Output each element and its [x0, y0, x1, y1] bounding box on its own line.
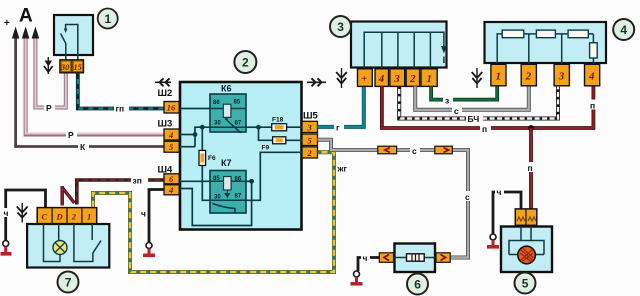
callout circle 1	[98, 9, 118, 29]
svg-text:ч: ч	[4, 208, 9, 218]
block internal wire Ш3/4 into block	[180, 134, 195, 136]
callout circle 6	[407, 274, 428, 295]
wire п from junction down to fan motor connector	[526, 128, 537, 209]
callout circle 7	[58, 272, 79, 293]
svg-text:г: г	[336, 123, 340, 133]
wire ч from fan motor connector to ground	[493, 187, 521, 235]
connector Ш4 pin 4	[164, 185, 179, 195]
svg-text:4: 4	[620, 23, 627, 37]
ignition switch 1	[54, 15, 93, 73]
wire гп from ignition terminal 15 to Ш2 pin 16	[78, 73, 164, 114]
svg-text:4: 4	[168, 185, 173, 195]
block internal wire Ш4/6 to relay K7 coil row	[180, 180, 210, 182]
svg-text:3: 3	[337, 20, 344, 34]
mounting block 2 body	[180, 82, 302, 230]
svg-text:Ш2: Ш2	[158, 88, 173, 99]
ground (body) for heater control	[1, 241, 12, 256]
svg-text:жг: жг	[337, 164, 348, 174]
junction on K6/30 row above F6	[200, 125, 205, 130]
fuse F18	[272, 117, 287, 131]
svg-text:3: 3	[393, 73, 400, 85]
svg-text:К7: К7	[221, 158, 232, 168]
wire с from Ш5 pin 5 to resistor 6 via inline connectors	[318, 140, 474, 258]
block internal wire K6 contact out to fuse junction	[246, 126, 259, 128]
svg-text:1: 1	[105, 12, 112, 26]
heater switch 3 body	[351, 22, 447, 69]
svg-text:2: 2	[525, 70, 532, 82]
wire жг from Ш5 pin 2 around to heater control pin 1	[93, 152, 353, 272]
svg-text:4: 4	[378, 73, 385, 85]
svg-text:зп: зп	[133, 176, 142, 186]
block internal wire fuse F6 down to K7 contact row	[202, 166, 210, 201]
body-ground symbol near heater control 7	[17, 203, 28, 223]
svg-text:п: п	[482, 124, 487, 134]
svg-text:п: п	[528, 163, 533, 173]
continuation arrow (to other circuits) near ignition switch	[44, 57, 53, 74]
connector Ш5 pin 2	[302, 147, 318, 158]
heater switch 3 connector pins + 4 3 2 1	[358, 69, 438, 87]
svg-text:1: 1	[427, 73, 433, 85]
block internal wire junction down through fuse F9 to Ш5/5	[259, 127, 303, 140]
wire р (middle arrow) from node A to Ш3 pin 4	[22, 27, 164, 135]
svg-text:+: +	[361, 73, 367, 85]
wire с from switch pin 2 to resistor pin 2	[415, 86, 529, 115]
svg-text:з: з	[445, 96, 449, 106]
inline connector pair on wire с (right)	[435, 146, 453, 154]
svg-text:30: 30	[214, 195, 221, 201]
svg-text:К6: К6	[221, 84, 232, 94]
svg-text:30: 30	[60, 62, 70, 72]
wire з from switch pin 1 to resistor pin 1	[431, 86, 497, 105]
svg-text:4: 4	[168, 130, 173, 140]
svg-text:2: 2	[409, 73, 416, 85]
wire п from switch pin 4 to resistor pin 4 and fan motor	[382, 86, 599, 133]
svg-text:85: 85	[213, 176, 220, 182]
svg-text:C: C	[42, 212, 48, 222]
svg-text:БЧ: БЧ	[468, 114, 480, 124]
junction on Ш3/4 line	[193, 132, 198, 137]
inline connector pair on wire с (left)	[378, 146, 397, 154]
block internal wire K7 coil row out to junction	[246, 180, 252, 182]
block internal wire K7 contact row to Ш5/2	[246, 152, 302, 200]
block internal wire Ш2/16 to relay K6 coil	[180, 108, 210, 110]
svg-text:30: 30	[214, 121, 221, 127]
block internal wire junction to fuse F18 to Ш5/3	[259, 126, 303, 128]
block internal wire from K6/30 row down to fuse F6	[201, 127, 203, 151]
svg-text:2: 2	[307, 148, 313, 158]
connector Ш3 pin 4	[164, 129, 179, 140]
svg-text:с: с	[454, 106, 459, 116]
wire ч from heater control pin C to ground	[3, 190, 46, 241]
connector Ш3 pin 5	[164, 141, 179, 152]
svg-text:+: +	[4, 18, 10, 29]
connector Ш5 pin 5	[302, 134, 318, 146]
ground (body) for fan motor	[487, 234, 499, 249]
wire ч from resistor 6 to ground	[358, 253, 379, 272]
svg-text:6: 6	[414, 278, 421, 292]
svg-text:2: 2	[71, 212, 77, 222]
continuation arrow » right of mounting block	[307, 78, 326, 86]
resistor element R2	[536, 30, 555, 38]
svg-text:п: п	[590, 100, 595, 110]
fan motor 5 connector	[515, 209, 537, 225]
block internal wire Ш3/5 into block	[180, 146, 195, 148]
relay K7	[210, 158, 246, 213]
svg-text:A: A	[19, 6, 33, 27]
svg-text:ч: ч	[363, 253, 368, 263]
svg-text:85: 85	[234, 100, 241, 106]
svg-text:гп: гп	[116, 104, 125, 114]
svg-text:Ш5: Ш5	[303, 111, 319, 122]
svg-text:Р: Р	[68, 130, 74, 140]
resistor element R1	[502, 30, 524, 38]
fan motor 5 body	[501, 227, 552, 273]
additional resistor 4 body	[485, 22, 607, 64]
svg-text:16: 16	[167, 103, 176, 113]
wire бч from switch pin 3 to resistor pin 3	[399, 86, 558, 124]
svg-text:5: 5	[522, 277, 529, 291]
svg-text:1: 1	[496, 70, 502, 82]
svg-text:D: D	[56, 212, 63, 222]
wire г from Ш5 pin 3 to heater switch +	[318, 86, 364, 132]
fuse F9	[262, 137, 286, 152]
svg-text:86: 86	[235, 177, 242, 183]
svg-text:4: 4	[588, 70, 595, 82]
ground (body) for resistor 6	[351, 271, 363, 286]
resistor element R3	[568, 30, 588, 38]
relay K6	[210, 84, 246, 133]
label К on wire to Ш3/5	[78, 142, 89, 153]
heater control unit 7 connector strip C D 2 1	[37, 208, 96, 224]
svg-text:87: 87	[235, 194, 242, 200]
svg-text:15: 15	[73, 62, 82, 72]
junction right of K7 coil	[249, 179, 254, 184]
svg-text:F9: F9	[262, 145, 270, 152]
fuse F6	[199, 150, 216, 165]
resistor 6 inline connector (right)	[436, 253, 450, 262]
wire зп from Ш4 pin 6 to heater control lighting	[62, 175, 164, 206]
svg-text:ч: ч	[497, 187, 502, 197]
svg-text:3: 3	[558, 70, 565, 82]
svg-text:2: 2	[242, 56, 249, 70]
callout circle 2	[234, 51, 256, 73]
svg-text:F18: F18	[272, 117, 284, 124]
svg-text:ч: ч	[141, 209, 146, 219]
svg-text:87: 87	[235, 121, 242, 127]
connector Ш2 pin 16	[164, 102, 179, 114]
resistor 6 body	[394, 244, 438, 273]
additional resistor 4 connector pins 1 2 3 4	[491, 64, 600, 86]
block internal wire Ш4/4 down-around to K7 coil right (ground return)	[180, 181, 252, 225]
motor armature	[518, 246, 536, 264]
label Р on wire to terminal 30	[44, 103, 55, 114]
svg-text:Р: Р	[46, 103, 52, 113]
svg-text:86: 86	[213, 100, 220, 106]
junction on п wire feeding fan motor	[528, 125, 534, 131]
svg-text:К: К	[80, 142, 86, 152]
heater control unit 7 body with lamp and switch	[27, 224, 109, 268]
connector Ш4 pin 6	[164, 174, 179, 184]
svg-text:с: с	[465, 192, 470, 202]
label Р on wire to Ш3/4	[66, 130, 77, 141]
wire к from node A down to Ш3 pin 5	[12, 27, 164, 147]
resistor 6 inline connector (left)	[379, 253, 393, 262]
wire ч from Ш4 pin 4 to ground	[141, 190, 164, 243]
block internal jumper Ш3/4-Ш3/5 and feed up to K6/30 row	[195, 127, 210, 147]
svg-text:3: 3	[307, 123, 313, 133]
svg-text:Ш3: Ш3	[158, 119, 173, 130]
continuation arrow « left of Ш2	[155, 78, 171, 86]
node A (battery feed) label	[4, 6, 33, 30]
resistor element R4 (vertical)	[590, 43, 598, 58]
illumination lamp	[53, 241, 67, 255]
ground (body) for Ш4/4 wire	[143, 243, 155, 258]
svg-text:F6: F6	[208, 155, 216, 162]
callout circle 4	[613, 19, 634, 40]
wire р (right arrow) from node A to ignition terminal 30	[32, 27, 66, 108]
callout circle 3	[330, 16, 351, 37]
body-ground symbol near resistor 4	[472, 68, 483, 88]
junction feeding F18/F9	[256, 125, 261, 130]
svg-text:1: 1	[87, 212, 91, 222]
callout circle 5	[515, 273, 536, 294]
svg-text:7: 7	[65, 276, 72, 290]
connector Ш5 pin 3	[302, 121, 318, 132]
svg-text:с: с	[412, 146, 417, 156]
body-ground symbol near heater switch 3	[336, 68, 347, 88]
